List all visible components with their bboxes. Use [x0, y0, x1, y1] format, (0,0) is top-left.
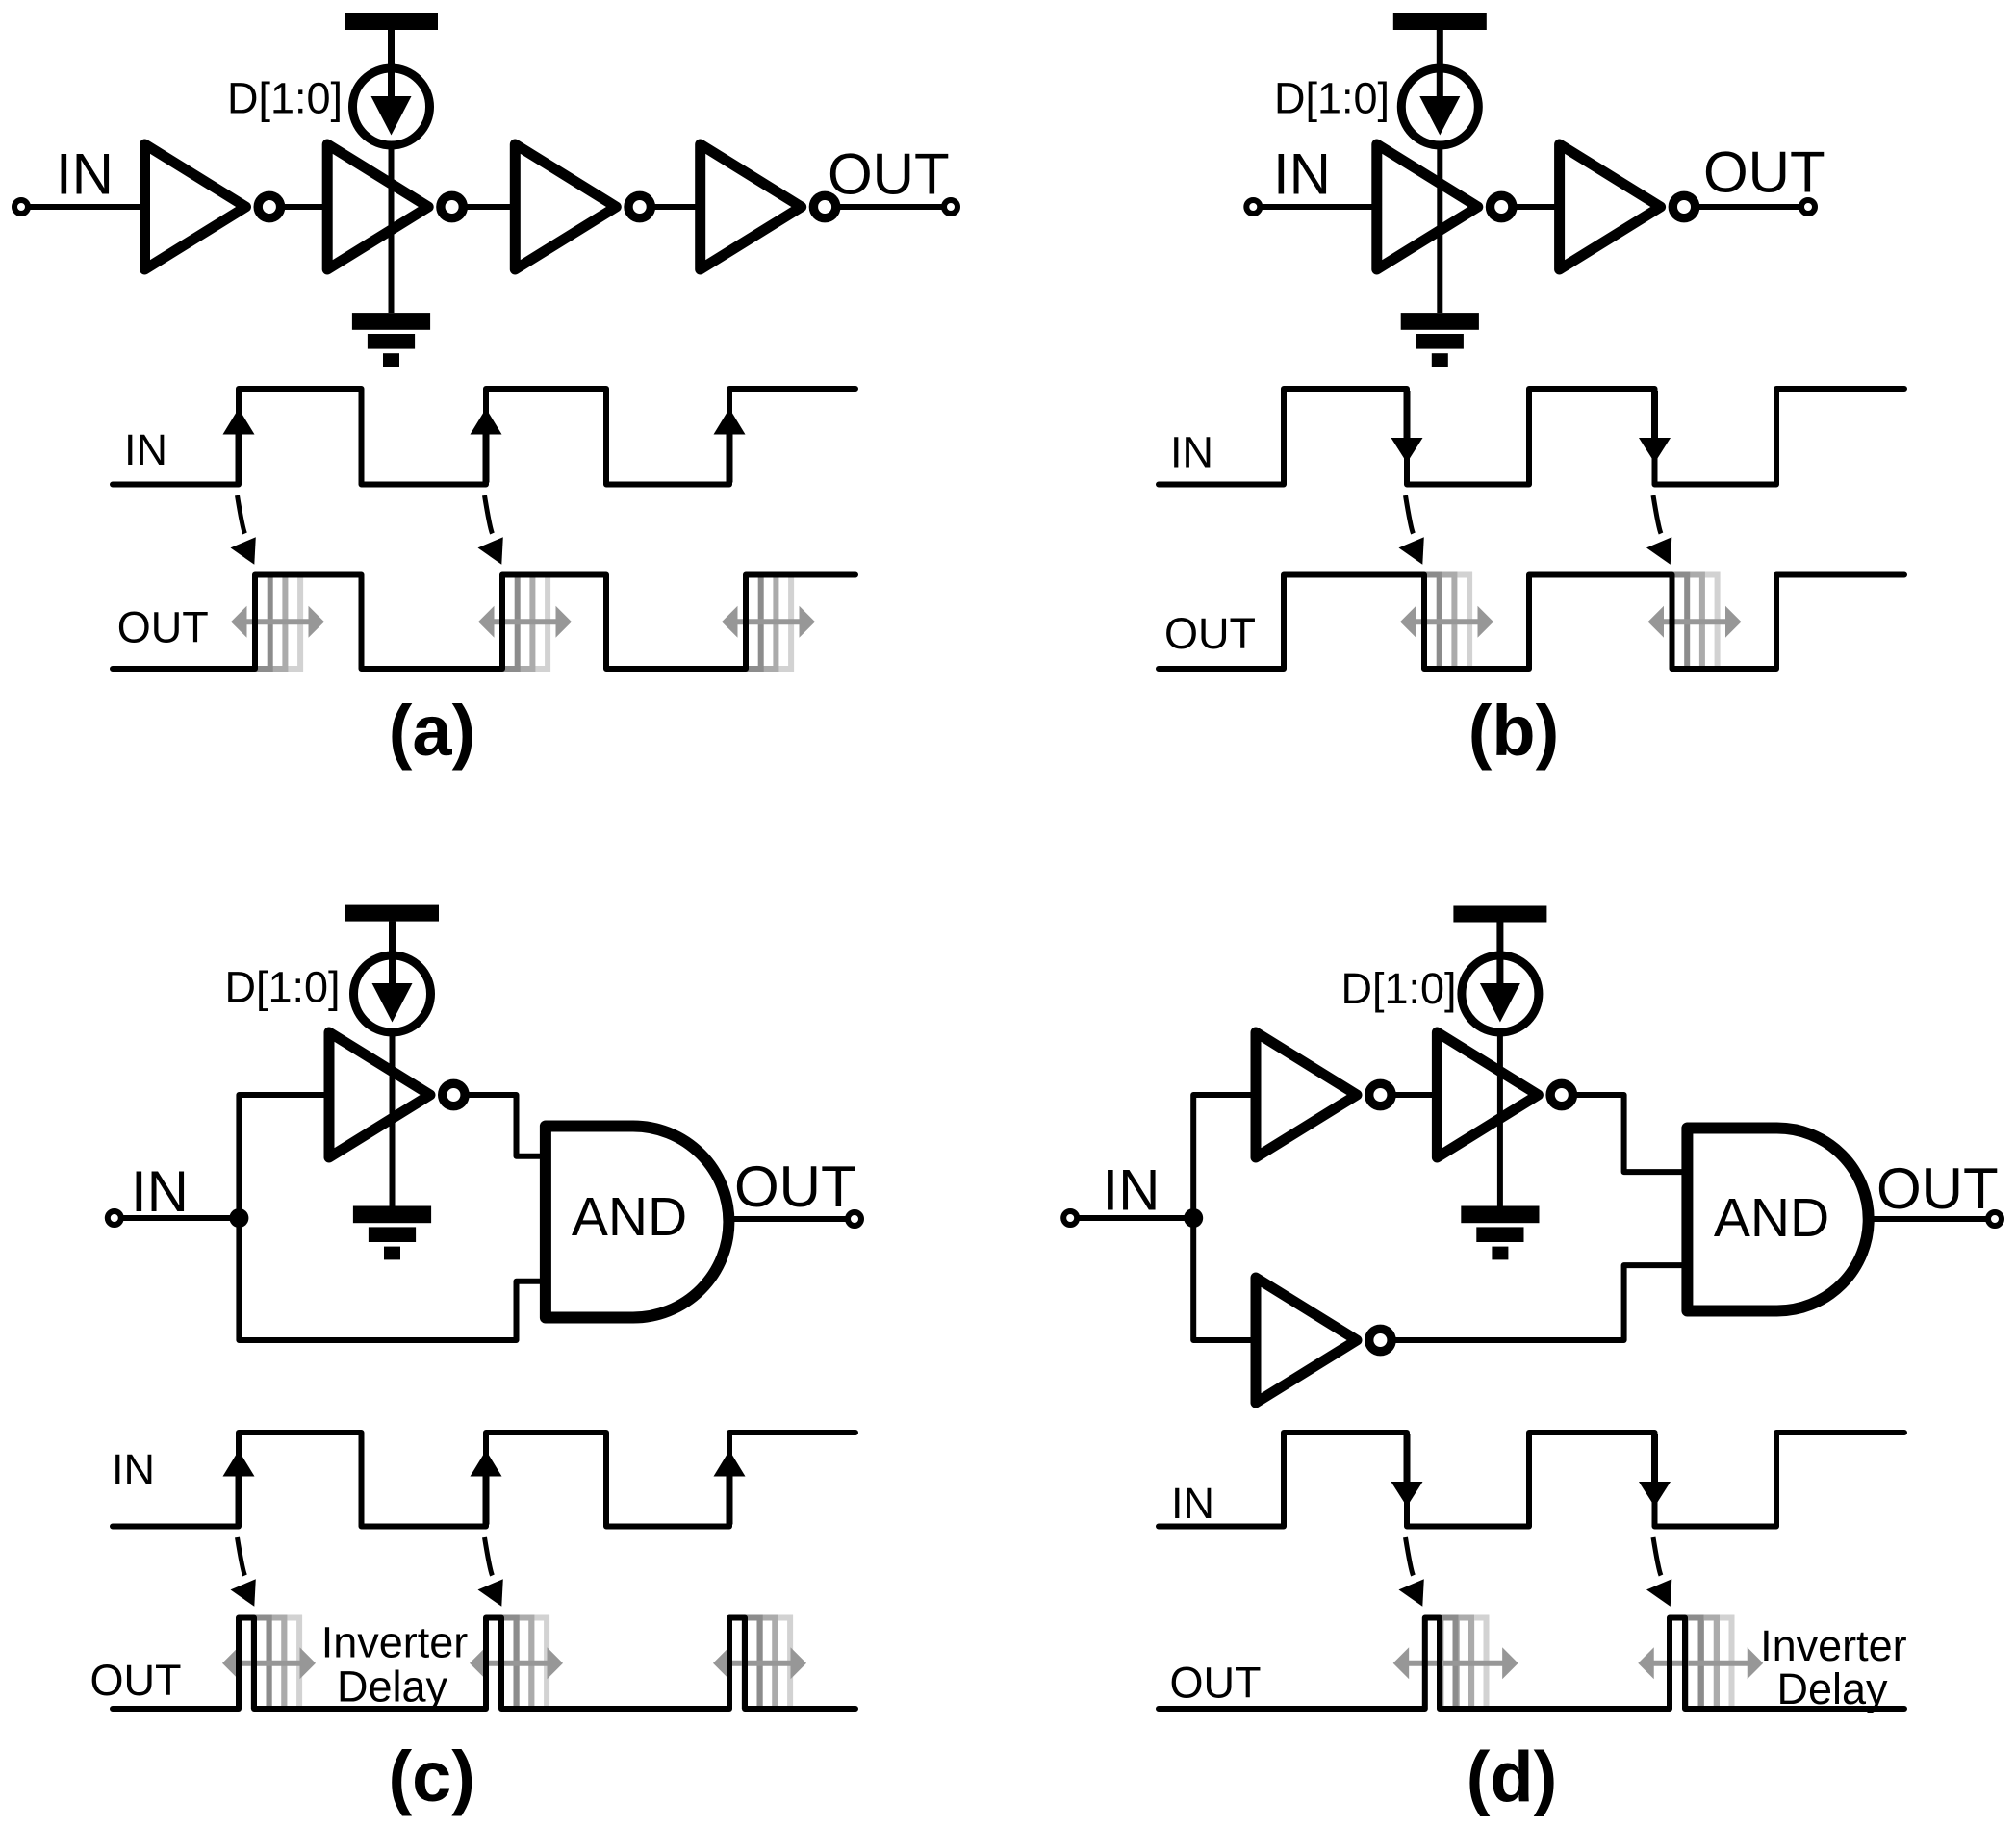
svg-text:Inverter: Inverter [321, 1618, 469, 1667]
svg-text:IN: IN [56, 142, 114, 207]
delay range arrow 1 on OUT (d) [1393, 1647, 1518, 1679]
inverter U4 (a) [701, 144, 836, 269]
svg-text:OUT: OUT [1876, 1156, 1999, 1221]
delay range arrow 1 on OUT (b) [1400, 606, 1493, 638]
node A junction (c) [229, 1208, 248, 1228]
svg-text:IN: IN [1103, 1158, 1161, 1223]
rising edge arrow 1 on IN (a) [223, 409, 255, 483]
svg-text:AND: AND [572, 1186, 687, 1248]
node IN terminal (a) [14, 200, 28, 214]
current source I1 (a) [353, 68, 430, 145]
wire U3 out to U4 in (a) [651, 204, 701, 210]
svg-text:OUT: OUT [117, 603, 209, 652]
waveform IN trace (d) [1159, 1433, 1904, 1527]
ground (c) [353, 1206, 431, 1260]
inverter U7 current-starved (c) [329, 1032, 465, 1157]
current source I3 (c) [354, 955, 431, 1032]
wire VDD rail to current source I1 (a) [389, 30, 395, 70]
wire IN input to node A (c) [115, 1215, 240, 1221]
svg-text:OUT: OUT [734, 1155, 856, 1219]
wire VDD rail to current source I2 (b) [1437, 30, 1442, 70]
curved delay arrow 1 (a) [231, 495, 256, 565]
wire U7 out to AND top input (c) [465, 1095, 546, 1156]
node OUT terminal (b) [1801, 200, 1815, 214]
ghost delayed pulses 3 on OUT (c) [745, 1618, 790, 1710]
inverter U3 (a) [515, 144, 651, 269]
wire current source I2 through U5 to ground (b) [1437, 144, 1442, 313]
wire U5 out to U6 in (b) [1513, 204, 1559, 210]
svg-text:(c): (c) [388, 1737, 474, 1816]
wire node A down to AND bottom input (c) [239, 1218, 546, 1340]
falling edge arrow 1 on IN (b) [1391, 391, 1423, 463]
svg-text:D[1:0]: D[1:0] [227, 74, 343, 123]
curved delay arrow 2 (c) [478, 1537, 503, 1607]
inverter U5 current-starved (b) [1377, 144, 1513, 269]
svg-text:IN: IN [1171, 1479, 1214, 1528]
ghost delayed falling edges 2 on OUT (b) [1672, 575, 1718, 670]
inverter U2 current-starved (a) [327, 144, 463, 269]
wire IN input to node B (d) [1070, 1215, 1193, 1221]
svg-text:OUT: OUT [1170, 1659, 1262, 1708]
delay range arrow 3 on OUT (a) [722, 606, 815, 638]
rising edge arrow 3 on IN (a) [714, 409, 746, 483]
ghost delayed pulses 2 on OUT (c) [501, 1618, 547, 1710]
curved delay arrow 2 (d) [1646, 1537, 1671, 1607]
node OUT terminal (a) [944, 200, 957, 214]
wire current source I3 through U7 to ground (c) [390, 1031, 396, 1206]
svg-text:(b): (b) [1468, 691, 1560, 771]
inverter U1 (a) [145, 144, 281, 269]
node IN terminal (b) [1246, 200, 1260, 214]
ghost delayed pulses 2 on OUT (d) [1686, 1618, 1732, 1710]
delay range arrow 2 on OUT (b) [1648, 606, 1742, 638]
svg-text:(a): (a) [389, 691, 475, 771]
inverter U11 (d) [1256, 1278, 1391, 1403]
ground (a) [352, 313, 430, 367]
wire IN input to inverter U5 (b) [1253, 204, 1377, 210]
ghost delayed falling edges 1 on OUT (b) [1424, 575, 1469, 670]
curved delay arrow 1 (c) [231, 1537, 256, 1607]
delay range arrow 1 on OUT (c) [222, 1647, 316, 1679]
rising edge arrow 2 on IN (c) [471, 1451, 502, 1525]
rising edge arrow 3 on IN (c) [714, 1451, 746, 1525]
waveform OUT trace (c) [113, 1618, 855, 1710]
delay range arrow 2 on OUT (a) [478, 606, 572, 638]
wire current source I4 through U10 to ground (d) [1497, 1031, 1503, 1206]
svg-text:AND: AND [1714, 1187, 1829, 1249]
svg-text:D[1:0]: D[1:0] [1274, 74, 1390, 123]
wire AND output to OUT terminal (c) [728, 1216, 855, 1222]
svg-text:IN: IN [1170, 428, 1213, 477]
inverter U10 current-starved (d) [1437, 1032, 1572, 1157]
delay range arrow 3 on OUT (c) [713, 1647, 806, 1679]
falling edge arrow 2 on IN (b) [1639, 391, 1671, 463]
power VDD symbol (a) [345, 13, 438, 73]
waveform IN trace (a) [113, 389, 855, 485]
svg-text:IN: IN [131, 1159, 189, 1224]
svg-text:OUT: OUT [1703, 140, 1825, 205]
waveform OUT trace (b) [1159, 575, 1904, 670]
ghost delayed rising edges 3 on OUT (a) [746, 575, 791, 670]
ghost delayed pulses 1 on OUT (c) [254, 1618, 299, 1710]
wire U6 out to OUT terminal (b) [1696, 204, 1808, 210]
node IN terminal (d) [1063, 1211, 1077, 1225]
wire U2 out to U3 in (a) [464, 204, 516, 210]
wire IN input to inverter U1 (a) [21, 204, 145, 210]
curved delay arrow 2 (a) [478, 495, 503, 565]
rising edge arrow 2 on IN (a) [471, 409, 502, 483]
curved delay arrow 1 (b) [1399, 495, 1424, 565]
wire U1 out to U2 in (a) [281, 204, 327, 210]
wire U4 out to OUT terminal (a) [836, 204, 951, 210]
svg-text:OUT: OUT [1164, 609, 1256, 658]
wire node A up to inverter U7 (c) [239, 1095, 329, 1218]
inverter U9 (d) [1256, 1032, 1391, 1157]
current source I2 (b) [1401, 68, 1478, 145]
ghost delayed pulses 1 on OUT (d) [1441, 1618, 1486, 1710]
wire VDD rail to current source I4 (d) [1497, 923, 1503, 958]
waveform OUT trace (a) [113, 575, 855, 670]
node IN terminal (c) [108, 1211, 121, 1225]
svg-text:Delay: Delay [1776, 1664, 1888, 1713]
svg-text:(d): (d) [1467, 1738, 1558, 1817]
wire node B down to inverter U11 (d) [1193, 1218, 1256, 1340]
wire AND output to OUT terminal (d) [1869, 1216, 1995, 1222]
inverter U6 (b) [1560, 144, 1696, 269]
svg-text:Delay: Delay [337, 1662, 448, 1712]
delay range arrow 2 on OUT (d) [1638, 1647, 1763, 1679]
ghost delayed rising edges 1 on OUT (a) [255, 575, 300, 670]
wire U9 out to U10 in (d) [1391, 1092, 1437, 1098]
svg-text:IN: IN [124, 425, 167, 474]
power VDD symbol (c) [345, 905, 439, 965]
ground (b) [1401, 313, 1479, 367]
delay range arrow 1 on OUT (a) [231, 606, 324, 638]
svg-text:Inverter: Inverter [1760, 1621, 1907, 1670]
wire U11 out to AND bottom input (d) [1391, 1265, 1687, 1340]
node OUT terminal (d) [1988, 1212, 2002, 1226]
current source I4 (d) [1462, 955, 1539, 1032]
power VDD symbol (d) [1453, 906, 1546, 966]
svg-text:OUT: OUT [90, 1656, 182, 1705]
waveform OUT trace (d) [1159, 1618, 1904, 1710]
ghost delayed rising edges 2 on OUT (a) [502, 575, 548, 670]
svg-text:D[1:0]: D[1:0] [1341, 964, 1457, 1013]
AND gate U12 (d) [1687, 1129, 1868, 1311]
svg-text:IN: IN [1273, 142, 1331, 207]
power VDD symbol (b) [1393, 13, 1487, 73]
wire U10 out to AND top input (d) [1573, 1095, 1688, 1172]
waveform IN trace (c) [113, 1433, 855, 1527]
falling edge arrow 2 on IN (d) [1639, 1434, 1671, 1507]
ground (d) [1461, 1206, 1539, 1260]
rising edge arrow 1 on IN (c) [223, 1451, 255, 1525]
wire current source I1 through U2 to ground (a) [389, 144, 395, 313]
svg-text:D[1:0]: D[1:0] [225, 963, 341, 1012]
svg-text:IN: IN [112, 1445, 155, 1494]
falling edge arrow 1 on IN (d) [1391, 1434, 1423, 1507]
curved delay arrow 2 (b) [1646, 495, 1671, 565]
AND gate U8 (c) [546, 1127, 729, 1318]
waveform IN trace (b) [1159, 389, 1904, 485]
node B junction (d) [1184, 1208, 1203, 1228]
curved delay arrow 1 (d) [1399, 1537, 1424, 1607]
node OUT terminal (c) [848, 1212, 861, 1226]
wire node B up to inverter U9 (d) [1193, 1095, 1256, 1218]
svg-text:OUT: OUT [828, 142, 950, 207]
delay range arrow 2 on OUT (c) [470, 1647, 563, 1679]
wire VDD rail to current source I3 (c) [390, 922, 396, 957]
